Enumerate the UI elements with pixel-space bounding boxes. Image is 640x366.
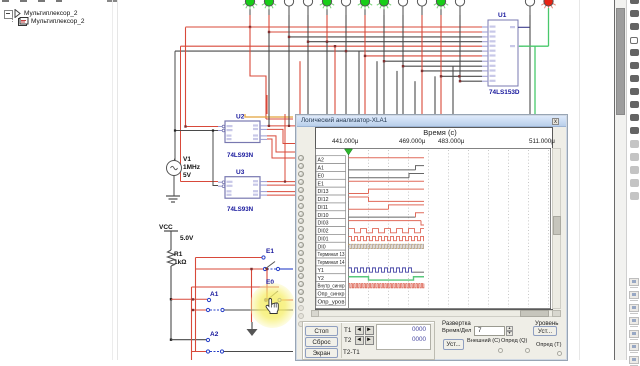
svg-text:U3: U3 (236, 169, 245, 176)
svg-text:74LS93N: 74LS93N (227, 152, 254, 159)
svg-text:Опр_уров: Опр_уров (317, 299, 344, 305)
svg-text:V1: V1 (183, 156, 191, 163)
svg-text:E1: E1 (266, 248, 274, 255)
svg-text:A2: A2 (210, 331, 219, 338)
svg-text:DI10: DI10 (317, 212, 328, 218)
svg-text:1kΩ: 1kΩ (174, 259, 186, 266)
svg-text:5V: 5V (183, 172, 192, 179)
svg-text:5.0V: 5.0V (180, 235, 194, 242)
svg-text:74LS93N: 74LS93N (227, 206, 254, 213)
svg-text:Опр_синхр: Опр_синхр (317, 291, 344, 297)
svg-text:U1: U1 (498, 12, 507, 19)
svg-text:A1: A1 (210, 291, 219, 298)
svg-text:U2: U2 (236, 114, 245, 121)
svg-text:Внутр_синхр: Внутр_синхр (317, 283, 344, 289)
svg-text:R1: R1 (174, 251, 183, 258)
svg-text:DI11: DI11 (317, 204, 328, 210)
svg-text:E0: E0 (317, 173, 323, 179)
svg-text:1MHz: 1MHz (183, 164, 201, 171)
svg-text:DI03: DI03 (317, 220, 328, 226)
svg-text:Терминал 14: Терминал 14 (317, 260, 344, 266)
svg-text:DI13: DI13 (317, 189, 328, 195)
svg-text:DI0: DI0 (317, 244, 325, 250)
svg-text:E1: E1 (317, 181, 323, 187)
svg-text:74LS153D: 74LS153D (489, 89, 520, 96)
svg-text:A1: A1 (317, 165, 323, 171)
svg-text:Y1: Y1 (317, 267, 323, 273)
svg-text:DI02: DI02 (317, 228, 328, 234)
svg-text:DI01: DI01 (317, 236, 328, 242)
svg-text:Терминал 13: Терминал 13 (317, 252, 344, 258)
svg-text:Y2: Y2 (317, 275, 323, 281)
svg-text:A2: A2 (317, 157, 323, 163)
svg-text:DI12: DI12 (317, 197, 328, 203)
svg-text:VCC: VCC (159, 224, 173, 231)
